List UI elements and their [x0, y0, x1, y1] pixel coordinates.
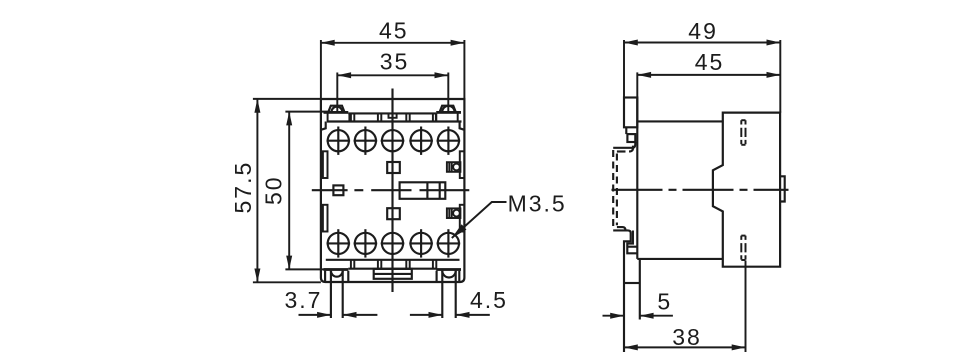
- svg-text:4.5: 4.5: [470, 287, 508, 313]
- svg-text:57.5: 57.5: [230, 161, 256, 214]
- svg-text:49: 49: [688, 18, 718, 44]
- svg-text:50: 50: [260, 175, 286, 205]
- svg-text:38: 38: [672, 324, 702, 350]
- svg-text:5: 5: [657, 289, 672, 315]
- svg-text:M3.5: M3.5: [508, 191, 567, 217]
- svg-text:35: 35: [380, 49, 410, 75]
- svg-text:45: 45: [695, 49, 725, 75]
- svg-text:3.7: 3.7: [285, 287, 323, 313]
- svg-text:45: 45: [379, 18, 409, 44]
